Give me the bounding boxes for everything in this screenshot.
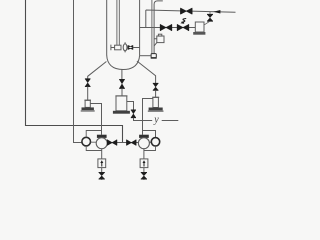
wire: vent riser with gooseneck bbox=[151, 0, 153, 54]
wire: left feed riser and bottom header to pump junction bbox=[26, 0, 123, 143]
valve V8 (vertical) bbox=[153, 83, 159, 90]
valve V9 (pump 1 discharge) bbox=[108, 140, 117, 146]
wire: F1 to valve V11 bbox=[101, 168, 103, 173]
wire: V5 to pot P1 bbox=[87, 87, 89, 101]
pump PU2 head bbox=[139, 135, 149, 138]
seal pot bbox=[151, 54, 157, 58]
gauge G1 bbox=[82, 137, 91, 146]
wire: branch to gauge G2 bbox=[143, 131, 156, 138]
pump PU1 body bbox=[96, 138, 107, 149]
wire: V11 tail bbox=[101, 178, 103, 181]
internal valve (small bowtie) bbox=[128, 45, 133, 49]
valve V12 (vertical, bottom right) bbox=[141, 172, 147, 179]
pedestal pot P1 bbox=[84, 99, 91, 101]
receiver R1 (cylinder) bbox=[115, 95, 127, 97]
hatched support of B1 bbox=[193, 32, 205, 35]
wire: V8 to pot P2 bbox=[155, 90, 157, 97]
valve V1 on vapour line bbox=[160, 24, 171, 30]
vessel T1 shell bbox=[106, 0, 108, 55]
pump PU1 head bbox=[97, 135, 107, 138]
wire: R1 side outlet bbox=[127, 102, 134, 110]
valve V11 (vertical, bottom left) bbox=[99, 172, 105, 179]
wire: V7 down to drain header bbox=[134, 118, 153, 121]
valve V2 (with impulse arrow) bbox=[177, 24, 188, 30]
pedestal pot P2 bbox=[152, 96, 159, 98]
valve V6 (vertical) bbox=[119, 79, 125, 88]
wire: vapour line from vessel (y28) bbox=[140, 27, 196, 29]
wire: vessel bottom centre outlet bbox=[121, 70, 123, 80]
wire: pump row line bbox=[107, 141, 151, 143]
svg-text:y: y bbox=[153, 115, 159, 126]
wire: G2 bottom stem bbox=[144, 146, 156, 150]
valve V10 (pump 2 suction) bbox=[127, 140, 136, 146]
wire: P1 outlet to pump 1 bbox=[90, 104, 101, 135]
agitator shaft bbox=[116, 0, 118, 45]
wire: vessel to seal pot bbox=[140, 55, 151, 57]
wire: P2 outlet to drain header and pump 2 bbox=[143, 99, 153, 135]
wire: top supply line (y12) bbox=[146, 10, 236, 28]
wire: vessel bottom-left outlet diagonal bbox=[88, 62, 107, 79]
flow arrow on top line bbox=[213, 10, 220, 14]
valve V3 (vertical, to top line) bbox=[207, 14, 213, 21]
flow element F1 bbox=[98, 159, 106, 168]
wire: drain header dash after label bbox=[162, 120, 179, 122]
valve V5 (vertical) bbox=[85, 79, 91, 87]
impulse arrow above V2 bbox=[181, 19, 186, 23]
valve V4 on top line bbox=[181, 8, 192, 14]
pump PU2 body bbox=[138, 138, 149, 149]
internal fitting (oval) bbox=[124, 42, 126, 52]
valve V7 (vertical) bbox=[131, 110, 136, 118]
wire: pump 2 down pipe bbox=[143, 149, 145, 159]
wire: G1 stems bbox=[86, 131, 102, 151]
wire: pump 1 down pipe bbox=[101, 149, 103, 159]
instrument box B1 bbox=[195, 22, 204, 32]
wire: V12 tail bbox=[143, 178, 145, 181]
agitator impeller box bbox=[115, 45, 121, 50]
trap/regulator box on riser bbox=[157, 36, 164, 43]
wire: second riser to pump group 1 damper bbox=[74, 0, 82, 143]
gauge G2 bbox=[151, 138, 159, 146]
wire: V6 to receiver R1 bbox=[121, 88, 123, 96]
wire: vessel bottom-right outlet diagonal bbox=[137, 61, 156, 83]
impeller side tick bbox=[111, 45, 115, 51]
wire: internal fitting to shell bbox=[133, 47, 140, 49]
wire: V3 to box B1 bbox=[205, 12, 211, 25]
flow element F2 bbox=[140, 159, 148, 168]
wire: F2 to valve V12 bbox=[143, 168, 145, 173]
